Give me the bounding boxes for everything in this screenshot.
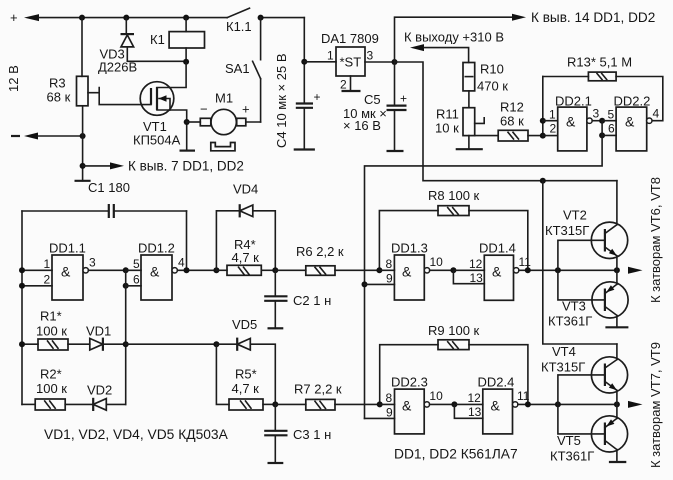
svg-text:8: 8 bbox=[386, 391, 393, 405]
wire output arrow to gates VT7 VT9 bbox=[628, 401, 643, 408]
node top rail SA1 bbox=[258, 15, 264, 21]
svg-text:&: & bbox=[61, 264, 71, 280]
svg-text:8: 8 bbox=[386, 257, 393, 271]
node K1 VD3 VT1 drain bbox=[183, 59, 189, 65]
svg-text:+: + bbox=[10, 10, 18, 25]
node VT4 VT5 emitters bbox=[614, 401, 620, 407]
svg-text:К затворам VT7, VT9: К затворам VT7, VT9 bbox=[648, 342, 663, 468]
logic gate DD1.4 bbox=[453, 241, 617, 301]
capacitor C4 bbox=[274, 18, 321, 150]
svg-text:2: 2 bbox=[340, 78, 347, 92]
svg-text:11: 11 bbox=[519, 255, 532, 269]
resistor R12 bbox=[475, 99, 543, 141]
wire C4 node to DA1 pin 1 bbox=[304, 61, 336, 63]
wire DD1.1 input vertical bbox=[21, 211, 23, 404]
node DD2 gates junction pin 5 bbox=[599, 118, 605, 124]
svg-text:12: 12 bbox=[469, 257, 483, 271]
svg-text:+: + bbox=[400, 92, 407, 106]
svg-text:100 к: 100 к bbox=[36, 381, 67, 396]
svg-text:&: & bbox=[625, 114, 635, 130]
wire minus rail bbox=[38, 135, 83, 137]
wire +12V top rail bbox=[39, 17, 227, 19]
svg-text:R12: R12 bbox=[500, 99, 524, 114]
ground minus rail end bar bbox=[75, 180, 91, 182]
svg-text:VT5: VT5 bbox=[557, 433, 581, 448]
svg-text:R1*: R1* bbox=[40, 309, 62, 324]
svg-text:КТ361Г: КТ361Г bbox=[548, 314, 592, 329]
svg-text:4: 4 bbox=[178, 256, 185, 270]
logic gate DD2.1 bbox=[543, 94, 602, 151]
svg-text:9: 9 bbox=[386, 405, 393, 419]
svg-text:&: & bbox=[402, 398, 412, 414]
node DD1.2 output bbox=[184, 267, 190, 273]
svg-text:C3 1 н: C3 1 н bbox=[293, 427, 331, 442]
wire +9V rail to transistors bbox=[395, 62, 617, 181]
wire DD1.2 output to C1 bbox=[186, 211, 188, 270]
transistor VT4 bbox=[541, 344, 628, 404]
wire VT4 VT5 base net bbox=[558, 375, 605, 434]
logic gate DD2.4 bbox=[454, 375, 617, 434]
svg-text:6: 6 bbox=[133, 272, 140, 286]
svg-text:R9 100 к: R9 100 к bbox=[428, 323, 480, 338]
resistor R13 bbox=[543, 54, 663, 120]
wire minus rail arrow bbox=[24, 133, 38, 140]
node DD1.1 pin 2 bbox=[19, 283, 25, 289]
svg-text:Д226В: Д226В bbox=[98, 59, 137, 74]
wire +12V top rail arrow bbox=[24, 14, 39, 21]
svg-text:DD2.4: DD2.4 bbox=[478, 375, 515, 390]
svg-text:VD2: VD2 bbox=[87, 382, 112, 397]
svg-text:КТ315Г: КТ315Г bbox=[545, 223, 589, 238]
svg-text:КП504А: КП504А bbox=[133, 133, 181, 148]
resistor R8 bbox=[379, 188, 527, 270]
svg-text:&: & bbox=[491, 398, 501, 414]
logic gate DD1.3 bbox=[365, 241, 454, 301]
wire R3 wiper to VT1 gate bbox=[99, 93, 151, 105]
node DD1.1 pin 1 bbox=[19, 267, 25, 273]
wire to pin 7 DD1 DD2 arrow bbox=[83, 158, 244, 173]
resistor R7 bbox=[275, 381, 379, 410]
node R5 R7 C3 bbox=[272, 401, 278, 407]
svg-text:C1 180: C1 180 bbox=[88, 180, 130, 195]
svg-text:10: 10 bbox=[429, 389, 443, 403]
svg-text:× 16 В: × 16 В bbox=[343, 118, 381, 133]
wire DD1.2 inputs down bbox=[125, 270, 127, 404]
switch SA1 bbox=[225, 18, 261, 122]
transistor VT3 bbox=[548, 270, 628, 328]
node R1 VD1 row right bbox=[123, 341, 129, 347]
node minus rail tap bbox=[80, 163, 86, 169]
svg-text:DD1.3: DD1.3 bbox=[391, 241, 428, 256]
wire output arrow to gates VT6 VT8 bbox=[628, 267, 643, 274]
resistor R2 bbox=[22, 367, 93, 411]
node DD2.3 output bbox=[451, 401, 457, 407]
svg-text:470 к: 470 к bbox=[477, 78, 508, 93]
svg-text:VT2: VT2 bbox=[563, 208, 587, 223]
svg-text:R3: R3 bbox=[49, 76, 66, 91]
node minus rail R3 bbox=[80, 133, 86, 139]
svg-text:2: 2 bbox=[550, 122, 557, 136]
svg-text:DD1.1: DD1.1 bbox=[49, 241, 86, 256]
svg-text:12 В: 12 В bbox=[6, 65, 21, 92]
node DA1 output bbox=[392, 59, 398, 65]
svg-text:C5: C5 bbox=[364, 92, 381, 107]
svg-text:К выв. 14 DD1, DD2: К выв. 14 DD1, DD2 bbox=[531, 10, 655, 25]
node +9V rail branch bbox=[540, 178, 546, 184]
node minus terminal label bbox=[11, 135, 20, 137]
node VT2 VT3 emitters bbox=[614, 267, 620, 273]
wire to output +310V arrow bbox=[404, 29, 504, 62]
svg-text:+: + bbox=[242, 102, 250, 117]
node DD1.3 output bbox=[450, 267, 456, 273]
svg-text:&: & bbox=[402, 264, 412, 280]
transistor VT5 bbox=[550, 404, 628, 463]
svg-text:VD4: VD4 bbox=[233, 182, 258, 197]
svg-text:12: 12 bbox=[468, 391, 482, 405]
svg-text:6: 6 bbox=[608, 122, 615, 136]
capacitor C1 bbox=[22, 180, 187, 218]
svg-text:SA1: SA1 bbox=[225, 61, 250, 76]
svg-text:DD1, DD2 К561ЛА7: DD1, DD2 К561ЛА7 bbox=[394, 447, 518, 462]
svg-text:4,7 к: 4,7 к bbox=[232, 381, 260, 396]
svg-text:DD1.2: DD1.2 bbox=[138, 241, 175, 256]
svg-text:DD1.4: DD1.4 bbox=[479, 241, 516, 256]
svg-text:4,7 к: 4,7 к bbox=[232, 250, 260, 265]
svg-text:11: 11 bbox=[517, 389, 530, 403]
node R1 row left bbox=[19, 341, 25, 347]
svg-text:3: 3 bbox=[89, 256, 96, 270]
svg-text:&: & bbox=[492, 264, 502, 280]
svg-text:R11: R11 bbox=[436, 106, 459, 121]
node top rail K1 bbox=[183, 15, 189, 21]
logic gate DD2.2 bbox=[602, 94, 659, 151]
node DD2.3 pin 8 bbox=[377, 401, 383, 407]
resistor R1 bbox=[22, 309, 90, 351]
node C4 DA1 input bbox=[301, 59, 307, 65]
svg-text:R2*: R2* bbox=[40, 367, 62, 382]
svg-text:К1: К1 bbox=[150, 32, 165, 47]
node DD1.3 pin 9 bbox=[362, 281, 368, 287]
svg-text:VD5: VD5 bbox=[232, 317, 257, 332]
voltage regulator DA1 7809 bbox=[321, 31, 395, 92]
svg-text:−: − bbox=[200, 102, 208, 117]
svg-text:68 к: 68 к bbox=[47, 90, 71, 105]
svg-text:2: 2 bbox=[44, 272, 51, 286]
svg-text:3: 3 bbox=[593, 107, 600, 121]
capacitor C3 bbox=[264, 404, 331, 463]
node DD2.4 output R9 bbox=[525, 401, 531, 407]
node top rail VD3 bbox=[123, 15, 129, 21]
svg-text:9: 9 bbox=[386, 271, 393, 285]
svg-text:10 к: 10 к bbox=[435, 120, 459, 135]
node DD1.2 pin 6 bbox=[123, 283, 129, 289]
motor M1 bbox=[187, 91, 261, 151]
diode VD5 bbox=[216, 317, 275, 404]
svg-text:1: 1 bbox=[549, 108, 556, 122]
svg-text:К затворам VT6, VT8: К затворам VT6, VT8 bbox=[648, 177, 663, 303]
diode VD1 bbox=[86, 323, 126, 351]
node DD2 gates junction pin 6 bbox=[599, 132, 605, 138]
svg-text:&: & bbox=[150, 264, 160, 280]
node DD1.4 output R8 bbox=[525, 267, 531, 273]
wire DD2 junction to pins 9 bbox=[365, 135, 603, 418]
resistor R9 bbox=[380, 323, 528, 404]
svg-text:КТ361Г: КТ361Г bbox=[550, 449, 594, 464]
logic gate DD2.3 bbox=[365, 375, 455, 434]
svg-text:VT3: VT3 bbox=[562, 299, 586, 314]
svg-text:К1.1: К1.1 bbox=[226, 19, 252, 34]
svg-text:VD1: VD1 bbox=[86, 323, 111, 338]
svg-text:К выв. 7 DD1, DD2: К выв. 7 DD1, DD2 bbox=[128, 158, 244, 173]
resistor R6 bbox=[275, 244, 379, 275]
svg-text:5: 5 bbox=[133, 257, 140, 271]
svg-text:C2 1 н: C2 1 н bbox=[293, 293, 331, 308]
node VT2 VT3 bases bbox=[555, 267, 561, 273]
svg-text:VT4: VT4 bbox=[552, 344, 576, 359]
svg-text:R5*: R5* bbox=[235, 367, 257, 382]
svg-text:R7 2,2 к: R7 2,2 к bbox=[294, 381, 342, 396]
logic gate DD1.1 bbox=[22, 241, 126, 301]
node DD1.2 pin 5 bbox=[123, 267, 129, 273]
svg-text:DD2.2: DD2.2 bbox=[614, 94, 651, 109]
resistor R10 bbox=[463, 61, 508, 107]
svg-text:13: 13 bbox=[470, 271, 484, 285]
svg-text:DA1 7809: DA1 7809 bbox=[321, 31, 379, 46]
switch K1.1 bbox=[226, 8, 252, 34]
node VT4 VT5 bases bbox=[555, 401, 561, 407]
node DD2.1 pin 1 net bbox=[540, 118, 546, 124]
diode VD2 bbox=[87, 382, 126, 411]
svg-text:*ST: *ST bbox=[340, 55, 362, 70]
svg-text:+: + bbox=[314, 90, 321, 104]
node DD2.1 pin 2 net bbox=[540, 133, 546, 139]
svg-text:&: & bbox=[566, 114, 576, 130]
wire +9V branch down to VT4 bbox=[543, 181, 617, 344]
node VT1 source M1 bbox=[184, 119, 190, 125]
node VD4 R4 left bbox=[213, 267, 219, 273]
resistor R5 bbox=[216, 344, 275, 410]
svg-text:1: 1 bbox=[44, 257, 51, 271]
svg-text:4: 4 bbox=[653, 107, 660, 121]
svg-text:К выходу +310 В: К выходу +310 В bbox=[404, 29, 504, 44]
svg-text:10: 10 bbox=[430, 255, 444, 269]
svg-text:М1: М1 bbox=[215, 91, 233, 106]
svg-text:DD2.3: DD2.3 bbox=[391, 375, 428, 390]
svg-text:КТ315Г: КТ315Г bbox=[541, 360, 585, 375]
diode VD3 bbox=[98, 18, 186, 75]
svg-text:DD2.1: DD2.1 bbox=[555, 94, 592, 109]
svg-text:R10: R10 bbox=[480, 61, 504, 76]
diode VD4 bbox=[216, 182, 275, 271]
resistor R11 bbox=[435, 106, 484, 149]
svg-text:C4 10 мк × 25 В: C4 10 мк × 25 В bbox=[274, 54, 289, 149]
svg-text:R6 2,2 к: R6 2,2 к bbox=[296, 244, 344, 259]
wire DD2.1 input net vertical bbox=[542, 77, 544, 136]
wire top rail right of K1.1 bbox=[261, 17, 305, 19]
node DD1.3 pin 8 bbox=[376, 267, 382, 273]
node top rail R3 bbox=[79, 15, 85, 21]
wire minus rail down bbox=[82, 136, 84, 181]
svg-text:68 к: 68 к bbox=[500, 113, 524, 128]
node R4 R6 C2 bbox=[272, 267, 278, 273]
wire oscillator row to VD5 bbox=[126, 343, 217, 345]
relay K1 bbox=[150, 18, 205, 62]
svg-text:13: 13 bbox=[468, 405, 482, 419]
resistor R3 bbox=[47, 18, 100, 136]
transistor VT1 bbox=[133, 62, 195, 151]
logic gate DD1.2 bbox=[126, 241, 217, 301]
wire +9V to pin 14 DD1 DD2 arrow bbox=[395, 10, 656, 62]
svg-text:3: 3 bbox=[367, 49, 374, 63]
svg-text:R8 100 к: R8 100 к bbox=[428, 188, 480, 203]
svg-text:5: 5 bbox=[608, 108, 615, 122]
node VD5 R5 left bbox=[213, 341, 219, 347]
svg-text:1: 1 bbox=[327, 49, 334, 63]
capacitor C2 bbox=[264, 270, 331, 328]
capacitor C5 bbox=[343, 62, 407, 151]
svg-text:R13* 5,1 М: R13* 5,1 М bbox=[567, 54, 632, 69]
resistor R4 bbox=[216, 237, 275, 275]
svg-text:VD1, VD2, VD4, VD5 КД503А: VD1, VD2, VD4, VD5 КД503А bbox=[44, 427, 229, 442]
wire VT2 VT3 base net bbox=[558, 240, 605, 300]
svg-text:100 к: 100 к bbox=[36, 323, 67, 338]
transistor VT2 bbox=[545, 181, 628, 271]
